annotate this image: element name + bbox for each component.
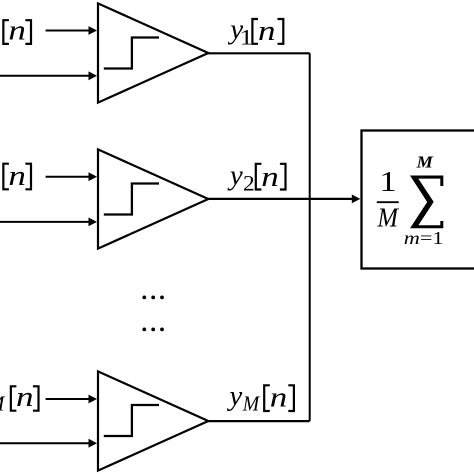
sigma upper limit M (415, 152, 434, 171)
svg-text:m=1: m=1 (404, 228, 444, 248)
sigma lower limit m=1 (404, 228, 444, 248)
wire: input arrow to U3 pin 2 (0, 439, 97, 448)
ellipsis dots row 1 (142, 296, 164, 300)
svg-text:n: n (8, 14, 26, 46)
wire: input arrow to U2 pin 1 (46, 172, 97, 181)
wire: U1 output to bus (208, 52, 310, 54)
comparator U2 (middle 1-bit quantizer triangle) (98, 149, 208, 248)
node y1[n] label (227, 14, 283, 50)
wire: input arrow to U1 pin 1 (46, 26, 97, 35)
svg-text:n: n (270, 381, 288, 413)
step-function symbol inside U2 (104, 184, 159, 215)
svg-text:1: 1 (379, 167, 396, 198)
svg-text:M: M (377, 203, 400, 233)
wire: U3 output to bus (208, 420, 310, 422)
node yM[n] label (226, 380, 294, 415)
sigma summation operator (410, 176, 443, 229)
input label x1[n] (clipped at left edge) (3, 14, 31, 46)
step-function symbol inside U1 (104, 38, 159, 69)
comparator U3 (bottom 1-bit quantizer triangle) (98, 371, 208, 470)
ellipsis dots row 2 (142, 328, 164, 332)
svg-text:y: y (227, 159, 243, 191)
summation block (averager box, right edge off-canvas) (362, 131, 474, 269)
wire: input arrow to U3 pin 1 (46, 395, 97, 404)
svg-text:y: y (226, 380, 242, 412)
comparator U1 (top 1-bit quantizer triangle) (98, 3, 208, 102)
svg-text:n: n (261, 161, 279, 193)
wire: U2 output arrow into summation block (208, 195, 360, 204)
wire: input arrow to U2 pin 2 (0, 218, 97, 227)
wire: vertical bus joining y1 and yM outputs (309, 53, 311, 421)
svg-text:M: M (242, 391, 261, 415)
svg-text:n: n (16, 381, 34, 413)
svg-text:n: n (8, 160, 26, 192)
fraction 1/M numerator (379, 167, 396, 198)
fraction 1/M denominator (377, 203, 400, 233)
wire: input arrow to U1 pin 2 (0, 71, 97, 80)
svg-text:1: 1 (240, 25, 253, 50)
svg-text:2: 2 (243, 171, 255, 196)
svg-text:M: M (415, 152, 434, 171)
fraction bar (377, 201, 399, 203)
svg-text:n: n (258, 15, 276, 47)
input label x2[n] (clipped at left edge) (3, 160, 31, 192)
node y2[n] label (227, 159, 286, 195)
step-function symbol inside U3 (104, 405, 159, 436)
input label xM[n] (clipped at left edge, subscript M partly visible) (0, 381, 39, 415)
